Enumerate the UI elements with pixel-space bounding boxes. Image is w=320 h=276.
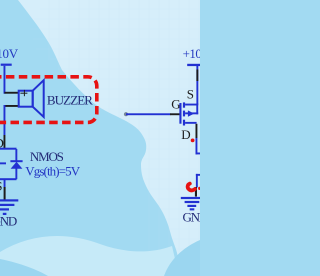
wire load return (cut off at edge) (196, 174, 200, 176)
background bottom-left corner patch (0, 259, 48, 276)
svg-text:+10V: +10V (0, 46, 19, 61)
svg-text:NMOS: NMOS (30, 149, 64, 164)
wire +10V to source (196, 66, 198, 105)
svg-text:Vgs(th)=5V: Vgs(th)=5V (25, 164, 80, 179)
wire buzzer bottom lead (4, 105, 18, 107)
buzzer LS1 (19, 80, 44, 117)
background faint grid in light zone (30, 0, 200, 276)
svg-text:S: S (0, 179, 2, 194)
wire drain lead (black) (196, 124, 198, 138)
svg-text:+10V: +10V (183, 46, 200, 61)
wire gate (126, 113, 171, 115)
ground (left) (0, 199, 18, 215)
PMOS Q2 (179, 102, 198, 125)
buzzer plus polarity mark (20, 90, 27, 96)
background light sweep top-right (18, 0, 200, 276)
background bottom-right corner patch (164, 240, 200, 276)
svg-text:GND: GND (183, 209, 201, 224)
wire drain down and right (196, 138, 198, 154)
wire buzzer top lead (4, 92, 18, 94)
body diode of NMOS (10, 149, 22, 179)
wire buzzer to NMOS drain (4, 105, 6, 135)
svg-text:BUZZER: BUZZER (47, 93, 93, 108)
wire NMOS drain lead (black) (4, 135, 6, 149)
svg-text:D: D (181, 127, 190, 142)
wire source to ground (left) (4, 180, 6, 188)
node gate dot (124, 112, 128, 116)
red annotation hand-drawn arrow (cut off) (188, 184, 195, 191)
svg-text:S: S (187, 87, 194, 102)
red annotation dot near D (191, 139, 195, 143)
NMOS Q1 body stub (0, 162, 6, 164)
svg-text:G: G (171, 97, 180, 112)
red dashed highlight box around buzzer (0, 77, 97, 123)
NMOS Q1 drain rail (0, 148, 17, 150)
ground (right) (181, 197, 202, 211)
background bottom light wave (0, 236, 179, 276)
background base (0, 0, 200, 276)
NMOS Q1 source rail (0, 178, 17, 180)
supply bar (left) (1, 64, 12, 66)
svg-text:GND: GND (0, 213, 17, 228)
wire from +10V down (4, 66, 6, 94)
supply bar (right) (187, 64, 207, 66)
